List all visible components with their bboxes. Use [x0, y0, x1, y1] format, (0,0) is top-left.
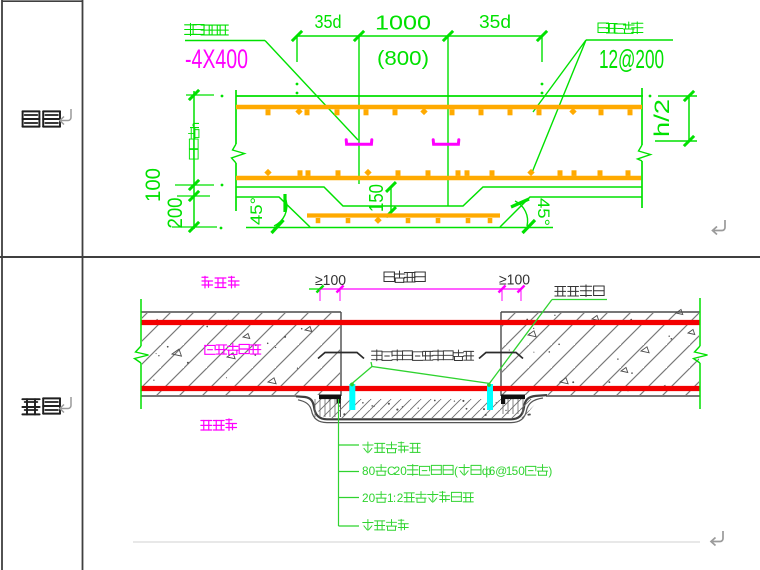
- label -4X400: [185, 44, 248, 74]
- top dimension line: [297, 35, 542, 37]
- dim text 200: [164, 198, 187, 229]
- rubber pad angle left: [319, 395, 341, 404]
- slab right edge: [641, 88, 643, 208]
- note waterproof membrane: [363, 519, 409, 530]
- tray outer line: [298, 398, 543, 423]
- dim text 35d left: [315, 12, 342, 32]
- dim text 45 left: [247, 197, 266, 225]
- wall top edge right block: [501, 311, 700, 313]
- note 80 thick C20 precast cover: [362, 464, 552, 478]
- row label DiBan (bottom slab): [23, 111, 60, 126]
- joint edge right wall: [500, 312, 502, 396]
- svg-text:45°: 45°: [534, 198, 553, 226]
- h/2 tick top: [684, 91, 694, 101]
- dim text 45 right: [534, 198, 553, 226]
- dim text >=100 left: [315, 273, 346, 289]
- joint edge left wall: [340, 312, 342, 396]
- rebar top bar: [236, 105, 642, 110]
- joint dim stubs: [320, 289, 521, 301]
- svg-text:0: 0: [369, 464, 376, 478]
- label steel waterstop: [555, 285, 604, 297]
- slab left edge: [235, 90, 237, 211]
- dim extension x359: [358, 36, 360, 184]
- svg-text:2: 2: [397, 491, 404, 505]
- svg-text:(: (: [454, 464, 458, 478]
- dim text 1000: [375, 13, 431, 35]
- concrete speckles: [153, 315, 672, 392]
- dim tick 2: [354, 31, 364, 41]
- dim extension x542: [541, 36, 544, 94]
- slab top edge: [236, 95, 643, 97]
- note waterproof rubber pad: [363, 442, 420, 453]
- dim tick 4: [537, 31, 547, 41]
- rebar middle bar hooks: [264, 169, 630, 176]
- h/2 tick bottom: [684, 136, 694, 146]
- table bottom faint line: [133, 541, 700, 543]
- red layer top: [141, 320, 700, 325]
- bracket right: [479, 353, 523, 359]
- slab left edge break: [232, 144, 245, 163]
- pilcrow bottom panel: [711, 531, 723, 546]
- 45deg left tick lower: [272, 220, 284, 233]
- label 12@200: [599, 44, 664, 74]
- pilcrow after DiBan: [60, 109, 71, 125]
- h/2 dim line: [688, 96, 690, 141]
- dim text 35d right: [479, 12, 511, 32]
- svg-text:2: 2: [394, 464, 401, 478]
- annotation branch 2: [339, 471, 360, 473]
- svg-text:-4X400: -4X400: [185, 44, 248, 74]
- joint dim lead-in green: [309, 288, 320, 290]
- slab haunch line right: [500, 197, 642, 227]
- cyan waterstop bar left: [349, 384, 355, 410]
- svg-text:0: 0: [400, 464, 407, 478]
- svg-text:≥100: ≥100: [315, 273, 346, 289]
- dim text h/2: [651, 99, 674, 137]
- left dim stubs: [172, 95, 217, 227]
- joint dim tick1 green: [316, 285, 323, 292]
- tray speckles: [329, 399, 531, 416]
- rebar bottom bar hooks: [316, 217, 493, 224]
- hatch boundary in tray left: [340, 396, 342, 417]
- waterstop label leader: [487, 300, 607, 387]
- tray outline: [296, 395, 547, 419]
- slab bottom edge with recess: [236, 187, 642, 206]
- table row divider: [0, 256, 760, 258]
- wall cut break left: [135, 346, 149, 363]
- waterstop section mark 2: [433, 140, 459, 144]
- wall cut break right: [694, 346, 708, 363]
- rebar additional bottom bar: [307, 213, 500, 217]
- rebar middle bar: [236, 176, 641, 181]
- svg-text:0: 0: [369, 491, 376, 505]
- slab right edge break: [638, 145, 651, 161]
- svg-text:≥100: ≥100: [499, 273, 530, 289]
- label slab thickness h: [188, 122, 202, 159]
- annotation branch 1: [339, 444, 360, 446]
- waterstop leader: [185, 41, 358, 141]
- dim text (800): [377, 48, 429, 70]
- left dim tick mid2: [189, 191, 199, 201]
- svg-text:h: h: [188, 122, 202, 129]
- label post-cast strip width: [384, 271, 425, 282]
- wall cut edge right: [699, 298, 701, 409]
- pilcrow after QiangBan: [60, 397, 71, 413]
- joint dim tick2: [336, 285, 343, 292]
- dim text 100: [142, 168, 165, 202]
- svg-text::: :: [393, 491, 396, 505]
- bottom construction line: [246, 227, 553, 229]
- leader end dot right: [487, 383, 491, 387]
- label basement side wall: [205, 343, 261, 354]
- label facing water face: [201, 419, 237, 431]
- left dim tick top: [189, 90, 199, 100]
- joint dim tick3: [498, 285, 505, 292]
- h/2 stub top: [649, 95, 697, 98]
- tray cross hatch zones: [315, 399, 523, 417]
- pilcrow top panel: [713, 220, 726, 235]
- h/2 stub bottom: [655, 140, 697, 142]
- label steel waterstop plate: [185, 23, 229, 35]
- label reserved rebar connect: [372, 350, 474, 361]
- dim extension x448: [447, 36, 449, 206]
- 150 tick bottom: [386, 207, 396, 217]
- rubber pad angle right: [501, 395, 525, 405]
- connect leader: [350, 362, 490, 386]
- cyan waterstop bar right: [487, 384, 493, 410]
- svg-text:2: 2: [362, 491, 369, 505]
- left dim tick mid1: [189, 180, 199, 190]
- wall bottom edge right: [546, 395, 700, 397]
- svg-text:45°: 45°: [247, 197, 266, 225]
- left dim line: [193, 91, 195, 229]
- tray hatch: [313, 399, 539, 418]
- svg-text:35d: 35d: [315, 12, 342, 32]
- wall left block hatch: [142, 313, 340, 395]
- wall right block hatch: [502, 313, 699, 395]
- red layer bottom: [141, 386, 700, 391]
- note 20 thick mortar leveling: [362, 491, 473, 505]
- waterstop section mark 1: [346, 140, 372, 144]
- wall top edge left block: [141, 311, 341, 313]
- 45deg left tick upper: [283, 194, 286, 212]
- 150 dim line: [390, 187, 392, 212]
- rebar top bar hooks: [266, 108, 633, 115]
- svg-text:h/2: h/2: [651, 99, 674, 137]
- svg-text:): ): [548, 464, 552, 478]
- svg-text:0: 0: [518, 464, 525, 478]
- row label QiangBan (wall panel): [22, 398, 60, 414]
- joint dim tick4: [517, 285, 524, 292]
- label add top-and-bottom: [598, 22, 643, 34]
- 45deg right arc: [515, 201, 528, 226]
- dim tick 3: [443, 31, 453, 41]
- annotation tree trunk: [338, 399, 340, 526]
- svg-text:100: 100: [142, 168, 165, 202]
- slab haunch line left: [236, 197, 310, 227]
- wall bottom edge left: [141, 395, 296, 397]
- bracket left: [318, 353, 364, 359]
- svg-text:150: 150: [366, 184, 388, 212]
- table top border segment: [2, 0, 83, 2]
- svg-text:35d: 35d: [479, 12, 511, 32]
- label back water face: [202, 276, 239, 288]
- aggregate triangles: [172, 310, 695, 391]
- 45deg left arc: [274, 200, 287, 226]
- dim text 150: [366, 184, 388, 212]
- dim extension x297: [296, 36, 299, 94]
- wall cut edge left: [140, 299, 142, 409]
- 45deg right tick upper: [511, 199, 529, 207]
- dim text >=100 right: [499, 273, 530, 289]
- svg-text:200: 200: [164, 198, 187, 229]
- joint dim line magenta: [320, 288, 521, 290]
- svg-text:(800): (800): [377, 48, 429, 70]
- left dim tick bottom: [189, 222, 199, 232]
- svg-text:12@200: 12@200: [599, 44, 664, 74]
- 45deg right tick lower: [523, 220, 536, 233]
- dim tick 1: [292, 31, 302, 41]
- annotation branch 3: [339, 497, 360, 499]
- left dim dots: [220, 95, 224, 230]
- svg-text:1000: 1000: [375, 13, 431, 35]
- table left border: [1, 0, 3, 570]
- right leader: [531, 40, 673, 175]
- annotation branch 4: [339, 525, 360, 527]
- leader end dot left: [350, 383, 354, 387]
- 150 tick top: [386, 182, 396, 192]
- table column divider line: [82, 0, 84, 570]
